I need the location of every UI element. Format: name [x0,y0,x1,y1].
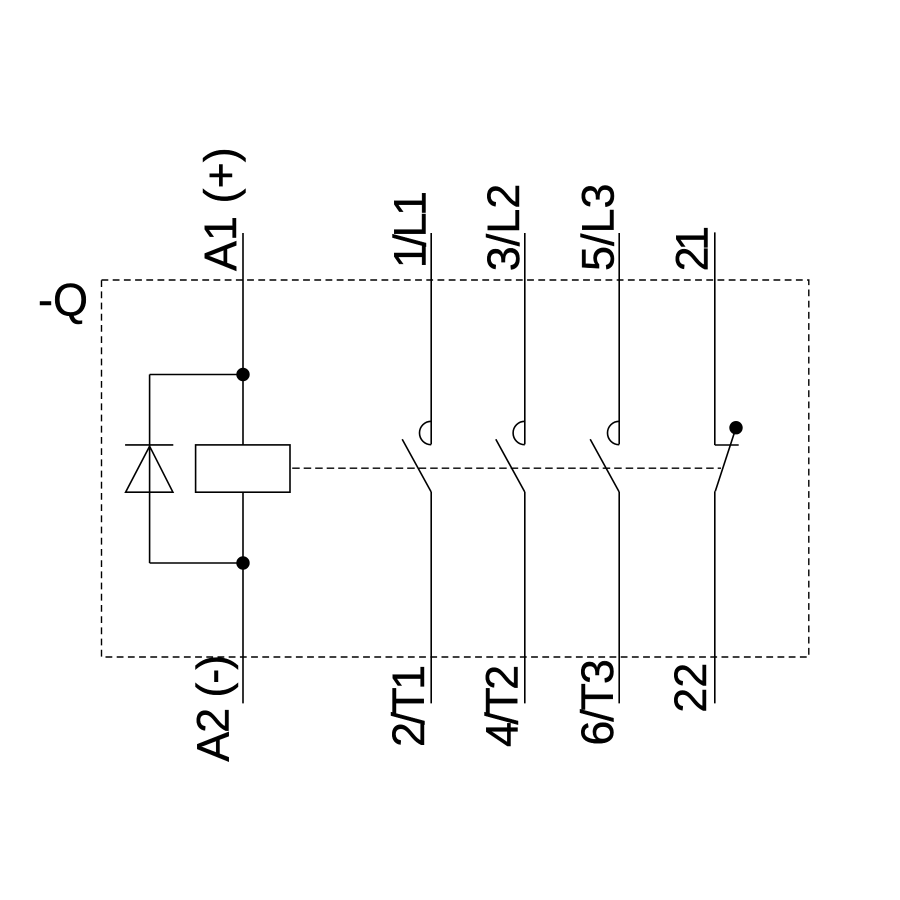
auxiliary contact 21-22 (NC) moving contact [715,428,736,492]
diode V1 (coil surge suppressor) cathode bar [125,444,173,446]
svg-text:5/L3: 5/L3 [572,183,623,271]
wire 2/T1 (lower) [430,492,432,703]
main contact pole 2 moving contact [496,439,525,492]
wire 6/T3 (lower) [618,492,620,703]
node: coil bottom junction [236,556,249,569]
node: coil top junction [236,368,249,381]
main contact pole 1 moving contact [402,439,431,492]
main contact pole 2 fixed contact arc [513,421,525,444]
wire 5/L3 (upper) [618,233,620,444]
svg-text:6/T3: 6/T3 [572,659,623,746]
diode V1 triangle (anode) [126,446,173,492]
svg-text:1/L1: 1/L1 [384,191,435,268]
svg-text:2/T1: 2/T1 [383,665,434,747]
wire 21 (upper) [714,232,716,445]
wire 1/L1 (upper) [430,233,432,444]
wire 3/L2 (upper) [524,233,526,444]
svg-text:3/L2: 3/L2 [478,184,529,272]
mirror-contact dot on aux contact [729,421,742,434]
svg-text:A2 (-): A2 (-) [187,655,238,762]
auxiliary contact 21-22 (NC) fixed contact tick [715,444,739,446]
svg-text:22: 22 [665,663,716,713]
wire: suppressor branch (bottom horizontal) [150,562,243,564]
wire A2 (coil feed, lower) [242,492,244,703]
wire: suppressor branch (top horizontal) [150,374,243,376]
contactor outline (dashed enclosure) [102,280,809,657]
main contact pole 1 fixed contact arc [420,421,432,444]
main contact pole 3 fixed contact arc [608,421,620,444]
svg-text:21: 21 [667,226,718,272]
svg-text:4/T2: 4/T2 [477,665,528,747]
coil K1 (operating coil) [196,445,290,492]
actuator linkage (dashed) [292,467,721,469]
wire 4/T2 (lower) [524,492,526,703]
svg-text:-Q: -Q [38,274,88,325]
main contact pole 3 moving contact [590,439,619,492]
wire A1 (coil feed, upper) [242,233,244,445]
wire: suppressor branch (left vertical) [149,375,151,564]
svg-text:A1 (+): A1 (+) [195,147,246,271]
wire 22 (lower) [714,491,716,703]
